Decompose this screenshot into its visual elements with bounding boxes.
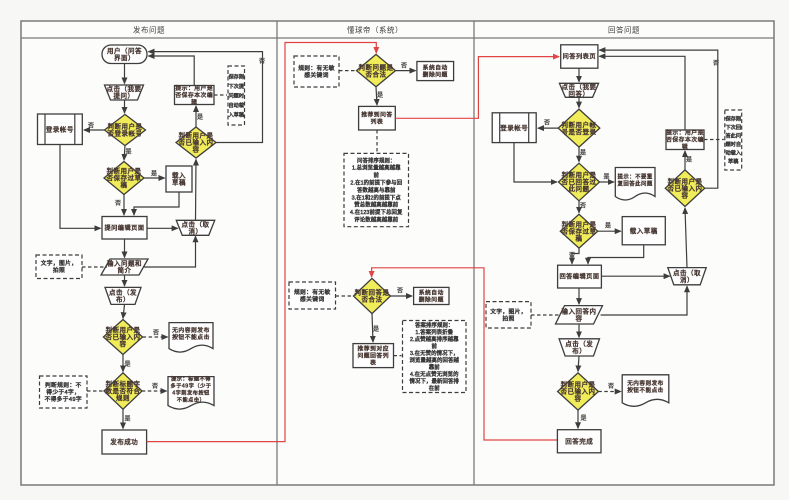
wire 点击取消→判断已输入(回答) [685,208,687,268]
svg-text:不能点击）: 不能点击） [177,395,205,403]
process 系统自动删除问题 (回答) [414,287,449,304]
svg-text:系统自动: 系统自动 [423,64,448,72]
wire 是→提示保存 [195,106,197,127]
svg-text:无内容则发布: 无内容则发布 [172,326,210,334]
lane divider 1 [276,21,278,485]
svg-text:否: 否 [580,203,586,210]
svg-text:辑: 辑 [682,143,688,151]
svg-text:否登录帐号: 否登录帐号 [108,129,143,138]
process 载入草稿 (发布) [166,166,192,192]
svg-text:删除问题: 删除问题 [423,71,448,79]
svg-text:否: 否 [608,383,614,390]
wire 是→推荐到回答列表 [372,314,373,343]
svg-text:判断用户帐: 判断用户帐 [562,120,597,129]
svg-text:登录帐号: 登录帐号 [500,123,528,132]
wire 问答列表页→点击回答 [578,68,580,82]
svg-text:规则: 规则 [116,393,130,402]
svg-text:消）: 消） [189,227,203,236]
wire 提问编辑页面→输入问题和简介 [124,239,126,258]
wire 点击发布→判断内容 [123,305,125,319]
predefined 登录帐号 (发布) [38,114,83,145]
svg-text:在前: 在前 [429,384,440,392]
svg-text:提问）: 提问） [114,91,135,100]
svg-text:否: 否 [88,123,94,130]
svg-text:拍照: 拍照 [53,266,65,274]
dashed link 推荐→排序规则 [376,130,378,153]
svg-text:消）: 消） [680,275,694,284]
manual-op 点击（发布） (发布) [105,287,141,304]
process 发布成功 [102,430,147,454]
wire 回答编辑页面→输入回答内容 [578,288,580,304]
red wire 推荐→问答列表页 [395,57,559,119]
wire 载入草稿→回答编辑页面 [588,245,644,264]
data 输入问题和简介 [101,259,148,275]
svg-text:文字，图片，: 文字，图片， [490,307,527,315]
predefined 登录帐号 (回答) [492,113,536,143]
decision 判断标题字数是否符合规则 [104,373,142,409]
wire 提示保存→问答列表页 [599,56,685,130]
wire 回答编辑页面→点击取消 [601,275,669,277]
comment 保存则下次提问题时自动载入草稿 [228,66,245,125]
svg-text:情况下，最新回答排: 情况下，最新回答排 [410,377,460,385]
svg-text:载入: 载入 [172,171,186,180]
svg-text:辑: 辑 [191,98,197,106]
decision 判断回答是否合法 [354,278,391,313]
wire 是→推荐到问答列表 [376,87,377,105]
svg-text:否: 否 [259,58,265,65]
svg-text:按钮不能点击: 按钮不能点击 [627,386,664,394]
svg-text:靠前: 靠前 [429,363,440,371]
decision 判断用户是否已回答过此问题 [559,163,600,201]
svg-text:是: 是 [580,150,586,157]
svg-text:判断用户是: 判断用户是 [561,380,596,389]
svg-text:容: 容 [120,339,127,348]
svg-text:是: 是 [377,92,383,99]
svg-text:判断规则：不: 判断规则：不 [45,381,82,389]
manual-op 点击（取消） (发布) [176,220,215,236]
svg-text:判断标题字: 判断标题字 [106,379,141,388]
dashed link 提示→注释 [214,94,227,96]
wire 否→提问编辑页面 [123,195,125,216]
svg-text:否: 否 [153,330,159,337]
svg-text:判断问题是: 判断问题是 [359,62,394,71]
svg-text:是: 是 [580,415,586,422]
decision 判断用户帐号是否登录 [558,109,600,147]
dashed link 文字图片拍照→输入 [82,266,107,268]
svg-text:草稿: 草稿 [172,178,186,187]
svg-text:容: 容 [193,145,200,154]
decision 判断用户是否保存过草稿 (发布) [104,162,144,195]
svg-text:多于49字（少于: 多于49字（少于 [171,381,212,389]
svg-text:懂球帝（系统）: 懂球帝（系统） [347,25,403,35]
comment 判断规则：不得少于4字，不得多于49字 [40,376,88,408]
svg-text:列表: 列表 [371,118,384,126]
svg-text:删除问题: 删除问题 [419,295,444,303]
svg-text:是: 是 [124,361,130,368]
svg-text:点击（发: 点击（发 [109,288,137,297]
svg-text:判断用户是: 判断用户是 [562,170,597,179]
svg-text:4.在123前提下总回复: 4.在123前提下总回复 [350,208,403,216]
process 推荐到问答列表 [359,106,396,130]
svg-text:登录帐号: 登录帐号 [46,125,74,134]
svg-text:否保存过草: 否保存过草 [562,226,597,235]
header band line [21,37,774,39]
comment 保存则下次回答此问题时自动载入草稿 [725,110,742,170]
wire 提示保存→用户界面 [149,56,195,86]
svg-text:否: 否 [713,60,719,67]
svg-text:回答完成: 回答完成 [565,437,593,446]
process 回答完成 [557,430,601,453]
svg-text:浏览量越高的回答越: 浏览量越高的回答越 [410,356,460,364]
wire 否→回答编辑页面 [572,248,579,264]
svg-text:此问题: 此问题 [569,184,590,193]
svg-text:否: 否 [397,288,403,295]
dashed wire 否→提示标题 [142,390,167,392]
dashed link 规则→判断问题合法 [339,70,356,72]
svg-text:规则：有无敏: 规则：有无敏 [294,288,331,296]
decision 判断用户是否登录帐号 [105,114,146,145]
svg-text:用户（问答: 用户（问答 [107,46,142,55]
svg-text:保存则: 保存则 [228,72,244,80]
svg-text:下次提: 下次提 [228,82,244,90]
svg-text:判断用户是: 判断用户是 [668,176,703,185]
decision 判断用户是否保存过草稿 (回答) [560,214,597,248]
svg-text:否已输入内: 否已输入内 [179,138,214,147]
svg-text:载入草稿: 载入草稿 [630,226,658,235]
svg-text:否保存本次编: 否保存本次编 [175,91,213,99]
process 问答列表页 [561,45,598,68]
svg-text:3.在1和2的前提下点: 3.在1和2的前提下点 [352,193,402,201]
wire 点击提问→判断登录 [124,100,126,113]
svg-text:否: 否 [152,383,158,390]
lane divider 2 [473,21,475,485]
svg-text:判断用户是: 判断用户是 [108,122,143,131]
svg-text:不得多于49字: 不得多于49字 [44,395,82,403]
svg-text:复回答此问题: 复回答此问题 [617,179,652,187]
svg-text:表: 表 [370,359,376,367]
process 回答编辑页面 [558,265,602,288]
svg-text:回答问题: 回答问题 [608,25,640,35]
dashed link 提示→注释(回答) [704,139,724,141]
manual-op 点击（我要回答） [559,82,598,98]
svg-text:是: 是 [125,149,131,156]
svg-text:提问编辑页面: 提问编辑页面 [104,224,144,232]
wire 否→系统删除问题 [395,70,415,72]
process 推荐到对应问题回答列表 [353,344,394,368]
svg-text:是: 是 [151,171,157,178]
svg-text:问题时: 问题时 [228,91,244,99]
svg-text:按钮不能点击: 按钮不能点击 [172,333,210,341]
wire 是→判断标题字数 [122,355,124,372]
svg-text:感关键词: 感关键词 [304,71,328,79]
svg-text:系统自动: 系统自动 [419,288,444,296]
svg-text:草稿: 草稿 [728,157,738,165]
svg-text:问题回答列: 问题回答列 [358,352,390,360]
dashed wire 否→文档(回答) [598,391,620,393]
svg-text:点击（我要: 点击（我要 [562,82,597,91]
dashed link 规则→判断回答合法 [336,295,353,297]
svg-text:判断回答是: 判断回答是 [355,288,390,297]
svg-text:判断用户是: 判断用户是 [107,166,142,175]
svg-text:赞总数越高越靠前: 赞总数越高越靠前 [354,201,398,209]
svg-text:容: 容 [682,190,689,199]
svg-text:自动载: 自动载 [228,101,244,109]
svg-text:否保存本次编: 否保存本次编 [666,136,704,144]
svg-text:4字则发布按钮: 4字则发布按钮 [172,388,210,396]
svg-text:前: 前 [374,171,380,179]
svg-text:推荐到问答: 推荐到问答 [361,111,393,119]
svg-text:号是否登录: 号是否登录 [562,127,597,136]
svg-text:否合法: 否合法 [366,69,387,78]
svg-text:3.在无赞的情况下，: 3.在无赞的情况下， [410,349,459,357]
decision 判断用户是否已输入内容 (发布) [103,320,142,355]
data 输入回答内容 [556,306,603,324]
process 提示：用户是否保存本次编辑 (回答) [666,129,704,151]
decision 判断问题是否合法 [357,54,396,86]
svg-text:评论数越高越靠前: 评论数越高越靠前 [354,216,398,224]
wire 是→提示保存(回答) [684,151,686,170]
dashed link 推荐→答案排序规则 [394,355,402,357]
wire 载入草稿→提问编辑页面 [134,192,179,215]
manual-op 点击（取消） (回答) [668,268,706,285]
wire 点击发布→判断内容(回答) [578,356,579,371]
svg-text:布）: 布） [116,295,130,304]
svg-text:否已输入内: 否已输入内 [668,183,703,192]
comment 规则：有无敏感关键词 (回答) [289,282,336,309]
wire 否→系统删除回答 [391,295,413,297]
wire 登录帐号→提问编辑页面 [60,145,101,229]
svg-text:1.答案列表折叠: 1.答案列表折叠 [415,328,453,336]
svg-text:拍照: 拍照 [502,314,514,322]
svg-text:是: 是 [686,157,692,164]
svg-text:文字，图片，: 文字，图片， [41,259,78,267]
document 提示：标题不得多于49字 [168,374,214,409]
svg-text:布）: 布） [572,346,586,355]
svg-text:判断用户是: 判断用户是 [562,219,597,228]
svg-text:点击（取: 点击（取 [673,268,701,277]
svg-text:推荐到对应: 推荐到对应 [358,345,390,353]
svg-text:容: 容 [575,394,582,403]
svg-text:回答）: 回答） [569,89,590,98]
wire 是→回答完成 [577,410,579,428]
decision 判断用户是否已输入内容 (发布-回答) [558,373,599,410]
wire 是→发布成功 [122,409,124,428]
svg-text:是: 是 [605,223,611,230]
process 载入草稿 (回答) [622,217,665,245]
document 无内容则发布按钮不能点击 (回答) [622,375,669,407]
svg-text:无内容则发布: 无内容则发布 [627,379,664,387]
wire 否→登录帐号(回答) [538,127,558,129]
svg-text:点击（我要: 点击（我要 [107,84,142,93]
comment 规则：有无敏感关键词 (问题) [294,56,339,87]
red wire 发布成功→判断问题是否合法 [147,43,377,442]
svg-text:输入问题和: 输入问题和 [107,259,142,268]
svg-text:判断用户是: 判断用户是 [106,325,141,334]
svg-text:是: 是 [603,174,609,181]
svg-text:界面）: 界面） [114,54,135,62]
wire 是→载入草稿 [144,177,165,179]
svg-text:4.在无点赞无浏览的: 4.在无点赞无浏览的 [410,370,459,378]
svg-text:是: 是 [124,416,130,423]
svg-text:否保存过草: 否保存过草 [107,173,142,182]
svg-text:题时自: 题时自 [725,140,741,148]
svg-text:回答编辑页面: 回答编辑页面 [559,273,599,281]
svg-text:容: 容 [576,314,583,323]
svg-text:提示：标题不得: 提示：标题不得 [171,374,211,382]
svg-text:点击（取: 点击（取 [182,220,210,229]
wire 否→用户界面 [149,52,263,143]
svg-text:入草稿: 入草稿 [228,110,244,118]
wire 是→提示不要重复 [599,181,614,183]
svg-text:稿: 稿 [121,180,128,189]
svg-text:1.总浏览量越高越靠: 1.总浏览量越高越靠 [352,164,401,172]
svg-text:输入回答内: 输入回答内 [562,307,597,316]
decision 判断用户是否已输入内容 (取消-回答) [665,170,704,207]
svg-text:答数越高与靠前: 答数越高与靠前 [357,186,396,194]
svg-text:点击（发: 点击（发 [565,339,593,348]
comment 答案排序规则 [403,321,467,393]
wire 输入回答→点击取消 [601,286,687,315]
dashed link 规则→判断标题 [87,390,103,392]
svg-text:答案排序规则：: 答案排序规则： [415,321,453,329]
comment 文字，图片，拍照 (回答) [486,302,531,328]
wire 判断登录→判断已回答 [578,147,580,162]
svg-text:否合法: 否合法 [362,295,383,304]
process 提问编辑页面 [102,217,147,240]
svg-text:前: 前 [432,342,438,350]
svg-text:问答排序规则：: 问答排序规则： [357,156,395,164]
svg-text:是: 是 [373,326,379,333]
svg-text:判断用户是: 判断用户是 [179,131,214,140]
svg-text:保存则: 保存则 [725,115,741,123]
svg-text:得少于4字，: 得少于4字， [46,388,80,396]
wire 点击取消→判断已输入 [195,160,198,221]
svg-text:下次回: 下次回 [725,123,741,131]
svg-text:是: 是 [197,114,203,121]
svg-text:否: 否 [401,63,407,70]
document 无内容则发布按钮不能点击 (发布) [169,323,213,353]
svg-text:感关键词: 感关键词 [300,295,324,303]
wire 判断登录→判断草稿 [124,146,125,160]
svg-text:问答列表页: 问答列表页 [563,53,596,61]
svg-text:发布成功: 发布成功 [110,437,138,446]
svg-text:动载入: 动载入 [725,149,741,157]
decision 判断用户是否已输入内容 (取消时) [176,127,216,158]
process 提示：用户是否保存本次编辑 (发布) [175,84,215,106]
wire 用户→点击提问 [124,64,126,84]
manual-op 点击（发布） (回答) [559,339,599,356]
svg-text:否: 否 [544,120,550,127]
wire 登录帐号→判断已回答 [514,143,557,182]
terminator 用户（问答界面） [102,45,147,64]
wire 否→问答列表页 [599,50,717,188]
red wire 回答完成→判断回答是否合法 [372,268,558,440]
wire 输入回答→点击发布 [578,324,580,337]
svg-text:否: 否 [115,200,121,207]
wire 输入问题和简介→点击取消 [144,236,196,267]
wire 点击回答→判断登录 [578,97,580,107]
svg-text:简介: 简介 [118,266,132,275]
manual-op 点击（我要提问） [105,84,144,100]
process 系统自动删除问题 [417,62,454,81]
svg-text:否已输入内: 否已输入内 [561,387,596,396]
document 提示：不要重复回答此问题 [615,168,655,201]
svg-text:否已回答过: 否已回答过 [562,177,597,186]
svg-text:稿: 稿 [576,233,583,242]
svg-text:提示：不要重: 提示：不要重 [617,172,652,180]
dashed link 文字图片拍照→输入回答 [531,314,559,316]
wire 是→载入草稿(回答) [598,230,621,232]
comment 文字，图片，拍照 (发布) [36,255,82,279]
svg-text:发布问题: 发布问题 [133,25,165,35]
wire 提问编辑页面→点击取消 [147,227,178,229]
wire 输入→点击发布 [124,275,126,286]
comment 问答排序规则 [344,153,409,226]
svg-text:答此问: 答此问 [725,132,741,140]
svg-text:2.在1的前提下参与回: 2.在1的前提下参与回 [350,179,402,187]
dashed wire 否→文档 [143,336,168,338]
svg-text:2.点赞越高排序越靠: 2.点赞越高排序越靠 [410,335,459,343]
wire 否→判断草稿(回答) [578,201,580,213]
svg-text:数是否符合: 数是否符合 [106,386,141,395]
svg-text:否已输入内: 否已输入内 [106,332,141,341]
wire 否→登录帐号 [84,129,105,131]
svg-text:规则：有无敏: 规则：有无敏 [298,64,335,72]
